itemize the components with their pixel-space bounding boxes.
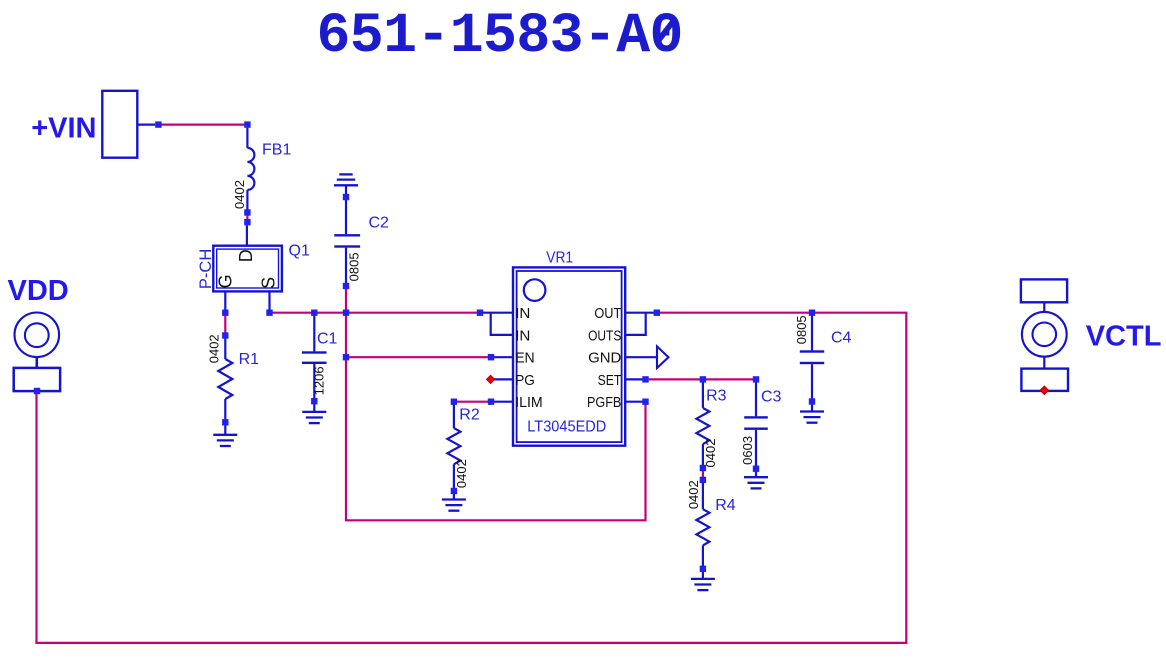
wire R2 to ILIM <box>454 401 491 403</box>
junction C3 top <box>753 376 759 382</box>
capacitor C2 <box>334 199 360 284</box>
pin OUTS bracket <box>625 313 646 335</box>
junction VR1 PGFB <box>642 399 648 405</box>
junction R3 bottom <box>700 465 706 471</box>
svg-text:GND: GND <box>588 350 621 367</box>
slash of zero in title <box>659 21 674 41</box>
wire FB1 to Q1 D <box>246 211 248 224</box>
junction at +VIN <box>155 121 161 127</box>
svg-text:0402: 0402 <box>686 480 701 509</box>
junction R1 top <box>222 332 228 338</box>
svg-text:C4: C4 <box>831 329 852 346</box>
pin IN2 bracket <box>491 313 513 335</box>
svg-text:P-CH: P-CH <box>197 249 215 289</box>
junction C3 bottom <box>753 466 759 472</box>
svg-text:G: G <box>216 274 236 288</box>
pin EN stub <box>493 356 513 358</box>
svg-text:C3: C3 <box>761 388 782 405</box>
svg-text:OUT: OUT <box>594 305 621 322</box>
pin OUT stub <box>625 312 654 314</box>
junction Q1 D <box>244 219 250 225</box>
wire R3 to R4 <box>702 467 704 481</box>
junction R1 bottom <box>222 419 228 425</box>
svg-text:PG: PG <box>515 372 535 389</box>
junction EN branch <box>343 354 349 360</box>
junction C2 top <box>343 194 349 200</box>
junction VDD <box>34 388 40 394</box>
junction VR1 SET <box>642 376 648 382</box>
junction C4 top <box>809 310 815 316</box>
svg-text:C1: C1 <box>317 330 338 347</box>
svg-text:C2: C2 <box>369 214 390 231</box>
svg-text:0402: 0402 <box>703 439 718 468</box>
svg-text:1206: 1206 <box>312 366 327 395</box>
wire EN branch <box>346 356 491 358</box>
junction VR1 ILIM <box>488 399 494 405</box>
junction C4 bottom <box>809 398 815 404</box>
junction FB1 top <box>244 121 250 127</box>
svg-text:SET: SET <box>598 372 622 389</box>
pin SET stub <box>625 378 643 380</box>
ground at C1 <box>302 412 326 423</box>
svg-text:VDD: VDD <box>8 275 69 307</box>
ground at R1 <box>213 435 237 446</box>
svg-text:VR1: VR1 <box>546 250 573 267</box>
no-connect marker at PG pin <box>486 375 494 383</box>
junction Q1 G <box>222 310 228 316</box>
junction VR1 OUT <box>654 310 660 316</box>
svg-text:0402: 0402 <box>454 459 469 488</box>
svg-text:IN: IN <box>515 305 530 322</box>
junction R3 top <box>700 376 706 382</box>
ground at C4 <box>800 412 824 423</box>
svg-text:+VIN: +VIN <box>31 112 96 144</box>
svg-text:0603: 0603 <box>740 436 755 465</box>
svg-text:OUTS: OUTS <box>588 327 621 344</box>
svg-text:651-1583-A0: 651-1583-A0 <box>317 4 683 68</box>
pin IN stub <box>483 312 513 314</box>
svg-text:R2: R2 <box>459 406 480 423</box>
ferrite bead FB1 <box>247 128 254 210</box>
junction R4 top <box>700 477 706 483</box>
regulator IC VR1 LT3045EDD body <box>513 267 625 445</box>
svg-text:Q1: Q1 <box>289 243 310 260</box>
junction node rail cross <box>343 310 349 316</box>
transistor Q1 P-CH MOSFET <box>213 226 282 311</box>
svg-text:IN: IN <box>515 327 530 344</box>
port symbol +VIN <box>102 91 155 158</box>
ground at R2 <box>442 500 466 511</box>
wire Q1 G to R1 <box>224 313 226 336</box>
svg-text:EN: EN <box>515 350 535 367</box>
svg-text:S: S <box>258 277 278 289</box>
svg-text:0805: 0805 <box>794 315 809 344</box>
svg-text:D: D <box>236 249 256 262</box>
resistor R3 <box>696 382 709 465</box>
junction FB1 bottom <box>244 209 250 215</box>
resistor R4 <box>696 483 709 579</box>
capacitor C1 <box>302 315 327 412</box>
ground at R4 <box>691 579 715 590</box>
junction VR1 EN <box>488 354 494 360</box>
junction C2 bottom <box>343 283 349 289</box>
junction Q1 S <box>266 310 272 316</box>
svg-text:VCTL: VCTL <box>1086 321 1162 353</box>
port symbol VCTL <box>1021 279 1068 391</box>
resistor R1 <box>218 338 232 435</box>
power symbol at C2 top <box>334 174 358 197</box>
pin PG stub <box>494 378 513 380</box>
wire +VIN to FB1 <box>161 123 246 125</box>
wire SET net to R3 and C3 <box>646 378 757 380</box>
svg-text:FB1: FB1 <box>262 142 291 159</box>
svg-text:0402: 0402 <box>206 334 221 363</box>
junction R2 bottom <box>451 488 457 494</box>
junction C1 bottom <box>311 398 317 404</box>
capacitor C3 <box>744 382 768 477</box>
svg-text:ILIM: ILIM <box>515 394 543 411</box>
junction VR1 IN <box>477 310 483 316</box>
capacitor C4 <box>800 315 824 412</box>
pin GND stub <box>625 356 657 358</box>
resistor R2 <box>447 404 460 500</box>
svg-text:R1: R1 <box>239 351 260 368</box>
svg-text:0402: 0402 <box>232 180 247 209</box>
wire C2 down through rail to PGFB <box>346 286 646 520</box>
junction R4 bottom <box>700 566 706 572</box>
svg-text:R3: R3 <box>706 388 727 405</box>
svg-text:PGFB: PGFB <box>587 394 621 411</box>
pin ILIM stub <box>493 401 513 403</box>
svg-text:0805: 0805 <box>347 252 362 281</box>
junction C1 top <box>311 310 317 316</box>
no-connect marker at VCTL <box>1040 386 1049 395</box>
pin PGFB stub <box>625 401 643 403</box>
wire node VIN rail: Q1 S to VR1 IN <box>270 312 481 314</box>
ground arrow at GND pin <box>657 346 669 368</box>
wire OUT rail to C4, down and around bottom to VDD <box>37 313 907 643</box>
port symbol VDD <box>14 313 60 392</box>
ground at C3 <box>744 477 768 488</box>
svg-text:R4: R4 <box>715 497 736 514</box>
svg-text:LT3045EDD: LT3045EDD <box>527 419 606 436</box>
junction R2 top <box>451 399 457 405</box>
